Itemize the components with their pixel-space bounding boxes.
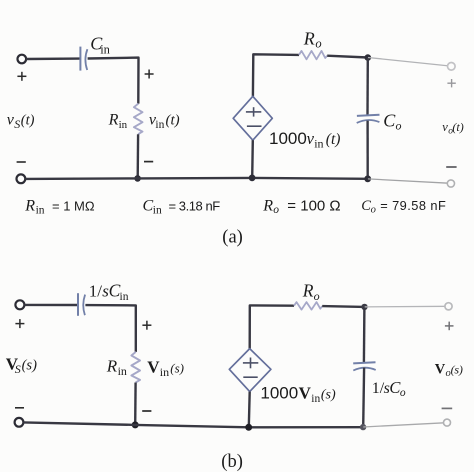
node junction top right (a) [365, 54, 372, 61]
svg-text:in: in [120, 291, 129, 303]
terminal input - (a) [17, 174, 26, 183]
plus output (a) [447, 79, 455, 87]
plus input left (a) [17, 72, 26, 81]
node junction bottom right (b) [360, 424, 366, 430]
minus input left (b) [15, 407, 24, 409]
bottom rail (a) [25, 178, 367, 179]
svg-text:= 79.58 nF: = 79.58 nF [380, 198, 446, 213]
label 1000V_in(s) (b) [260, 383, 336, 404]
label R_o (b) [302, 281, 320, 303]
dependent source 1000v_in (a) [233, 96, 272, 140]
terminal output + (a) [448, 63, 456, 71]
caption (a) [222, 228, 243, 248]
svg-text:V: V [299, 383, 312, 402]
label R_in (b) [106, 357, 127, 378]
plus mid (b) [142, 321, 151, 330]
svg-text:S: S [15, 362, 21, 376]
value label R_o = 100 Ohm (a) [262, 197, 340, 216]
svg-text:(b): (b) [221, 452, 243, 472]
terminal output + (b) [445, 303, 452, 310]
svg-text:R: R [108, 111, 119, 128]
svg-text:C: C [383, 110, 396, 130]
svg-text:o: o [273, 204, 279, 216]
svg-text:(s): (s) [170, 361, 184, 376]
node junction 1 (a) [134, 175, 141, 182]
minus output (a) [446, 166, 456, 168]
plus input left (b) [15, 319, 24, 328]
svg-text:o: o [396, 119, 402, 133]
svg-text:V: V [147, 358, 160, 377]
label 1/sC_o (b) [372, 378, 406, 399]
wire R_in to rail (a) [136, 134, 139, 178]
wire node to C_o (a) [366, 58, 369, 116]
label V_o(s) (b) [435, 361, 463, 379]
svg-text:(t): (t) [326, 131, 341, 148]
svg-text:in: in [160, 365, 169, 379]
dependent source 1000V_in (b) [229, 349, 271, 392]
svg-text:in: in [153, 205, 162, 217]
value label C_in = 3.18 nF (a) [143, 197, 221, 216]
label R_in (a) [108, 111, 128, 131]
wire C_o to rail (a) [366, 121, 369, 179]
svg-text:in: in [311, 393, 320, 405]
wire R_o to node (a) [327, 56, 368, 58]
wire gray output top (a) [368, 58, 451, 67]
capacitor C_o (a) [357, 115, 380, 123]
wire corner to diamond top (a) [253, 54, 299, 96]
svg-text:in: in [155, 119, 164, 131]
value label C_o = 79.58 nF (a) [361, 198, 446, 216]
label V_S(s) (b) [6, 355, 37, 377]
label V_in(s) (b) [147, 358, 184, 379]
plus mid (a) [145, 70, 154, 79]
svg-text:o: o [315, 37, 321, 51]
svg-text:1000: 1000 [269, 129, 307, 148]
svg-text:R: R [24, 197, 35, 214]
svg-text:in: in [119, 119, 128, 131]
wire cap to rail (b) [362, 368, 365, 428]
svg-text:1000: 1000 [260, 383, 298, 402]
minus mid (b) [142, 410, 151, 412]
label 1/sC_in (b) [89, 281, 129, 303]
resistor R_o (a) [299, 51, 327, 59]
terminal input + (a) [18, 55, 27, 64]
wire input top left (b) [24, 304, 77, 307]
svg-text:(t): (t) [21, 113, 35, 129]
terminal output - (a) [447, 180, 454, 187]
node junction 2 (a) [249, 175, 256, 182]
svg-text:= 3.18 nF: = 3.18 nF [169, 198, 221, 213]
terminal output - (b) [444, 419, 451, 426]
node junction top right (b) [361, 304, 367, 310]
minus output (b) [442, 407, 453, 409]
wire corner to diamond top (b) [250, 305, 294, 348]
wire R_o to node (b) [322, 305, 364, 308]
svg-text:(s): (s) [321, 387, 336, 402]
svg-text:o: o [400, 387, 406, 399]
plus output (b) [445, 322, 454, 331]
wire input top left (a) [26, 57, 80, 60]
svg-text:1/: 1/ [89, 282, 103, 301]
svg-text:S: S [14, 117, 20, 131]
svg-text:(t): (t) [452, 120, 463, 134]
wire cap to corner (a) [88, 58, 139, 104]
svg-text:= 100 Ω: = 100 Ω [287, 197, 340, 214]
caption (b) [221, 452, 243, 472]
bottom rail (b) [23, 422, 363, 427]
resistor R_o (b) [294, 302, 322, 310]
wire gray output bottom (b) [363, 423, 446, 427]
svg-text:in: in [314, 136, 323, 150]
svg-text:(s): (s) [451, 362, 463, 376]
svg-text:in: in [118, 364, 127, 378]
wire gray output bottom (a) [368, 179, 451, 183]
svg-text:(s): (s) [22, 358, 37, 374]
svg-text:R: R [302, 281, 314, 301]
minus mid (a) [144, 161, 153, 163]
svg-text:in: in [100, 42, 110, 56]
svg-text:o: o [314, 289, 320, 303]
svg-text:(a): (a) [222, 228, 243, 248]
capacitor C_in (a) [80, 47, 87, 71]
terminal input - (b) [15, 418, 24, 427]
svg-text:= 1 MΩ: = 1 MΩ [52, 198, 95, 213]
wire gray output top (b) [365, 305, 449, 308]
wire R_in to rail (b) [134, 383, 137, 425]
node junction bottom right (a) [364, 175, 371, 182]
svg-text:o: o [371, 205, 376, 216]
wire diamond bottom to rail (a) [251, 140, 254, 178]
label v_o(t) (a) [442, 120, 463, 137]
node junction 1 (b) [132, 421, 139, 428]
minus input left (a) [17, 161, 26, 163]
capacitor 1/sC_in (b) [78, 293, 85, 316]
label C_o (a) [383, 110, 401, 132]
terminal input + (b) [15, 300, 24, 309]
label v_in(t) (a) [149, 111, 180, 130]
label 1000v_in(t) (a) [269, 129, 340, 150]
value label R_in = 1 MOhm (a) [24, 197, 95, 216]
svg-text:in: in [36, 205, 45, 217]
svg-text:R: R [106, 357, 118, 376]
label C_in (a) [90, 34, 110, 57]
svg-text:R: R [303, 28, 315, 48]
svg-text:R: R [262, 197, 273, 214]
svg-text:V: V [435, 361, 446, 377]
svg-text:(t): (t) [166, 112, 180, 128]
wire diamond bottom to rail (b) [248, 392, 251, 428]
node junction 2 (b) [245, 424, 252, 431]
capacitor 1/sC_o (b) [353, 362, 376, 370]
label v_S(t) (a) [7, 112, 35, 131]
label R_o (a) [303, 28, 322, 50]
resistor R_in (b) [131, 352, 140, 383]
resistor R_in (a) [134, 104, 143, 135]
wire node to cap (b) [363, 307, 366, 362]
wire cap to corner (b) [85, 305, 135, 352]
